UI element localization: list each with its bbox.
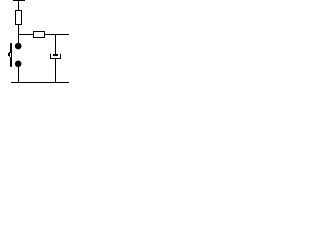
- capacitor C1 top plate: [53, 54, 58, 56]
- node VCC top terminal bar: [13, 0, 25, 1]
- resistor R1 (vertical box): [16, 11, 22, 25]
- wire top lead of R1: [18, 1, 19, 10]
- wire vertical drop from junction to capacitor C1: [55, 35, 56, 54]
- background: [0, 0, 69, 89]
- wire R1 bottom lead down to switch contact: [18, 25, 19, 43]
- wire from C1 bottom to ground rail: [55, 59, 56, 83]
- ground rail (bottom horizontal wire): [11, 82, 69, 83]
- wire from R2 right side to right edge: [45, 34, 69, 35]
- switch SW1 push knob (left circle outline): [8, 53, 9, 56]
- capacitor C1 bottom cup plate: [51, 54, 61, 59]
- switch SW1 contact dot (bottom): [15, 61, 22, 68]
- wire from bottom contact down to ground rail: [18, 67, 19, 83]
- switch SW1 contact dot (top): [15, 43, 22, 50]
- switch SW1 actuator bar: [10, 43, 12, 67]
- resistor R2 (horizontal box): [34, 32, 45, 38]
- switch SW1 actuator bar gap behind knob: [10, 53, 11, 57]
- wire branch to the right at node A: [19, 34, 33, 35]
